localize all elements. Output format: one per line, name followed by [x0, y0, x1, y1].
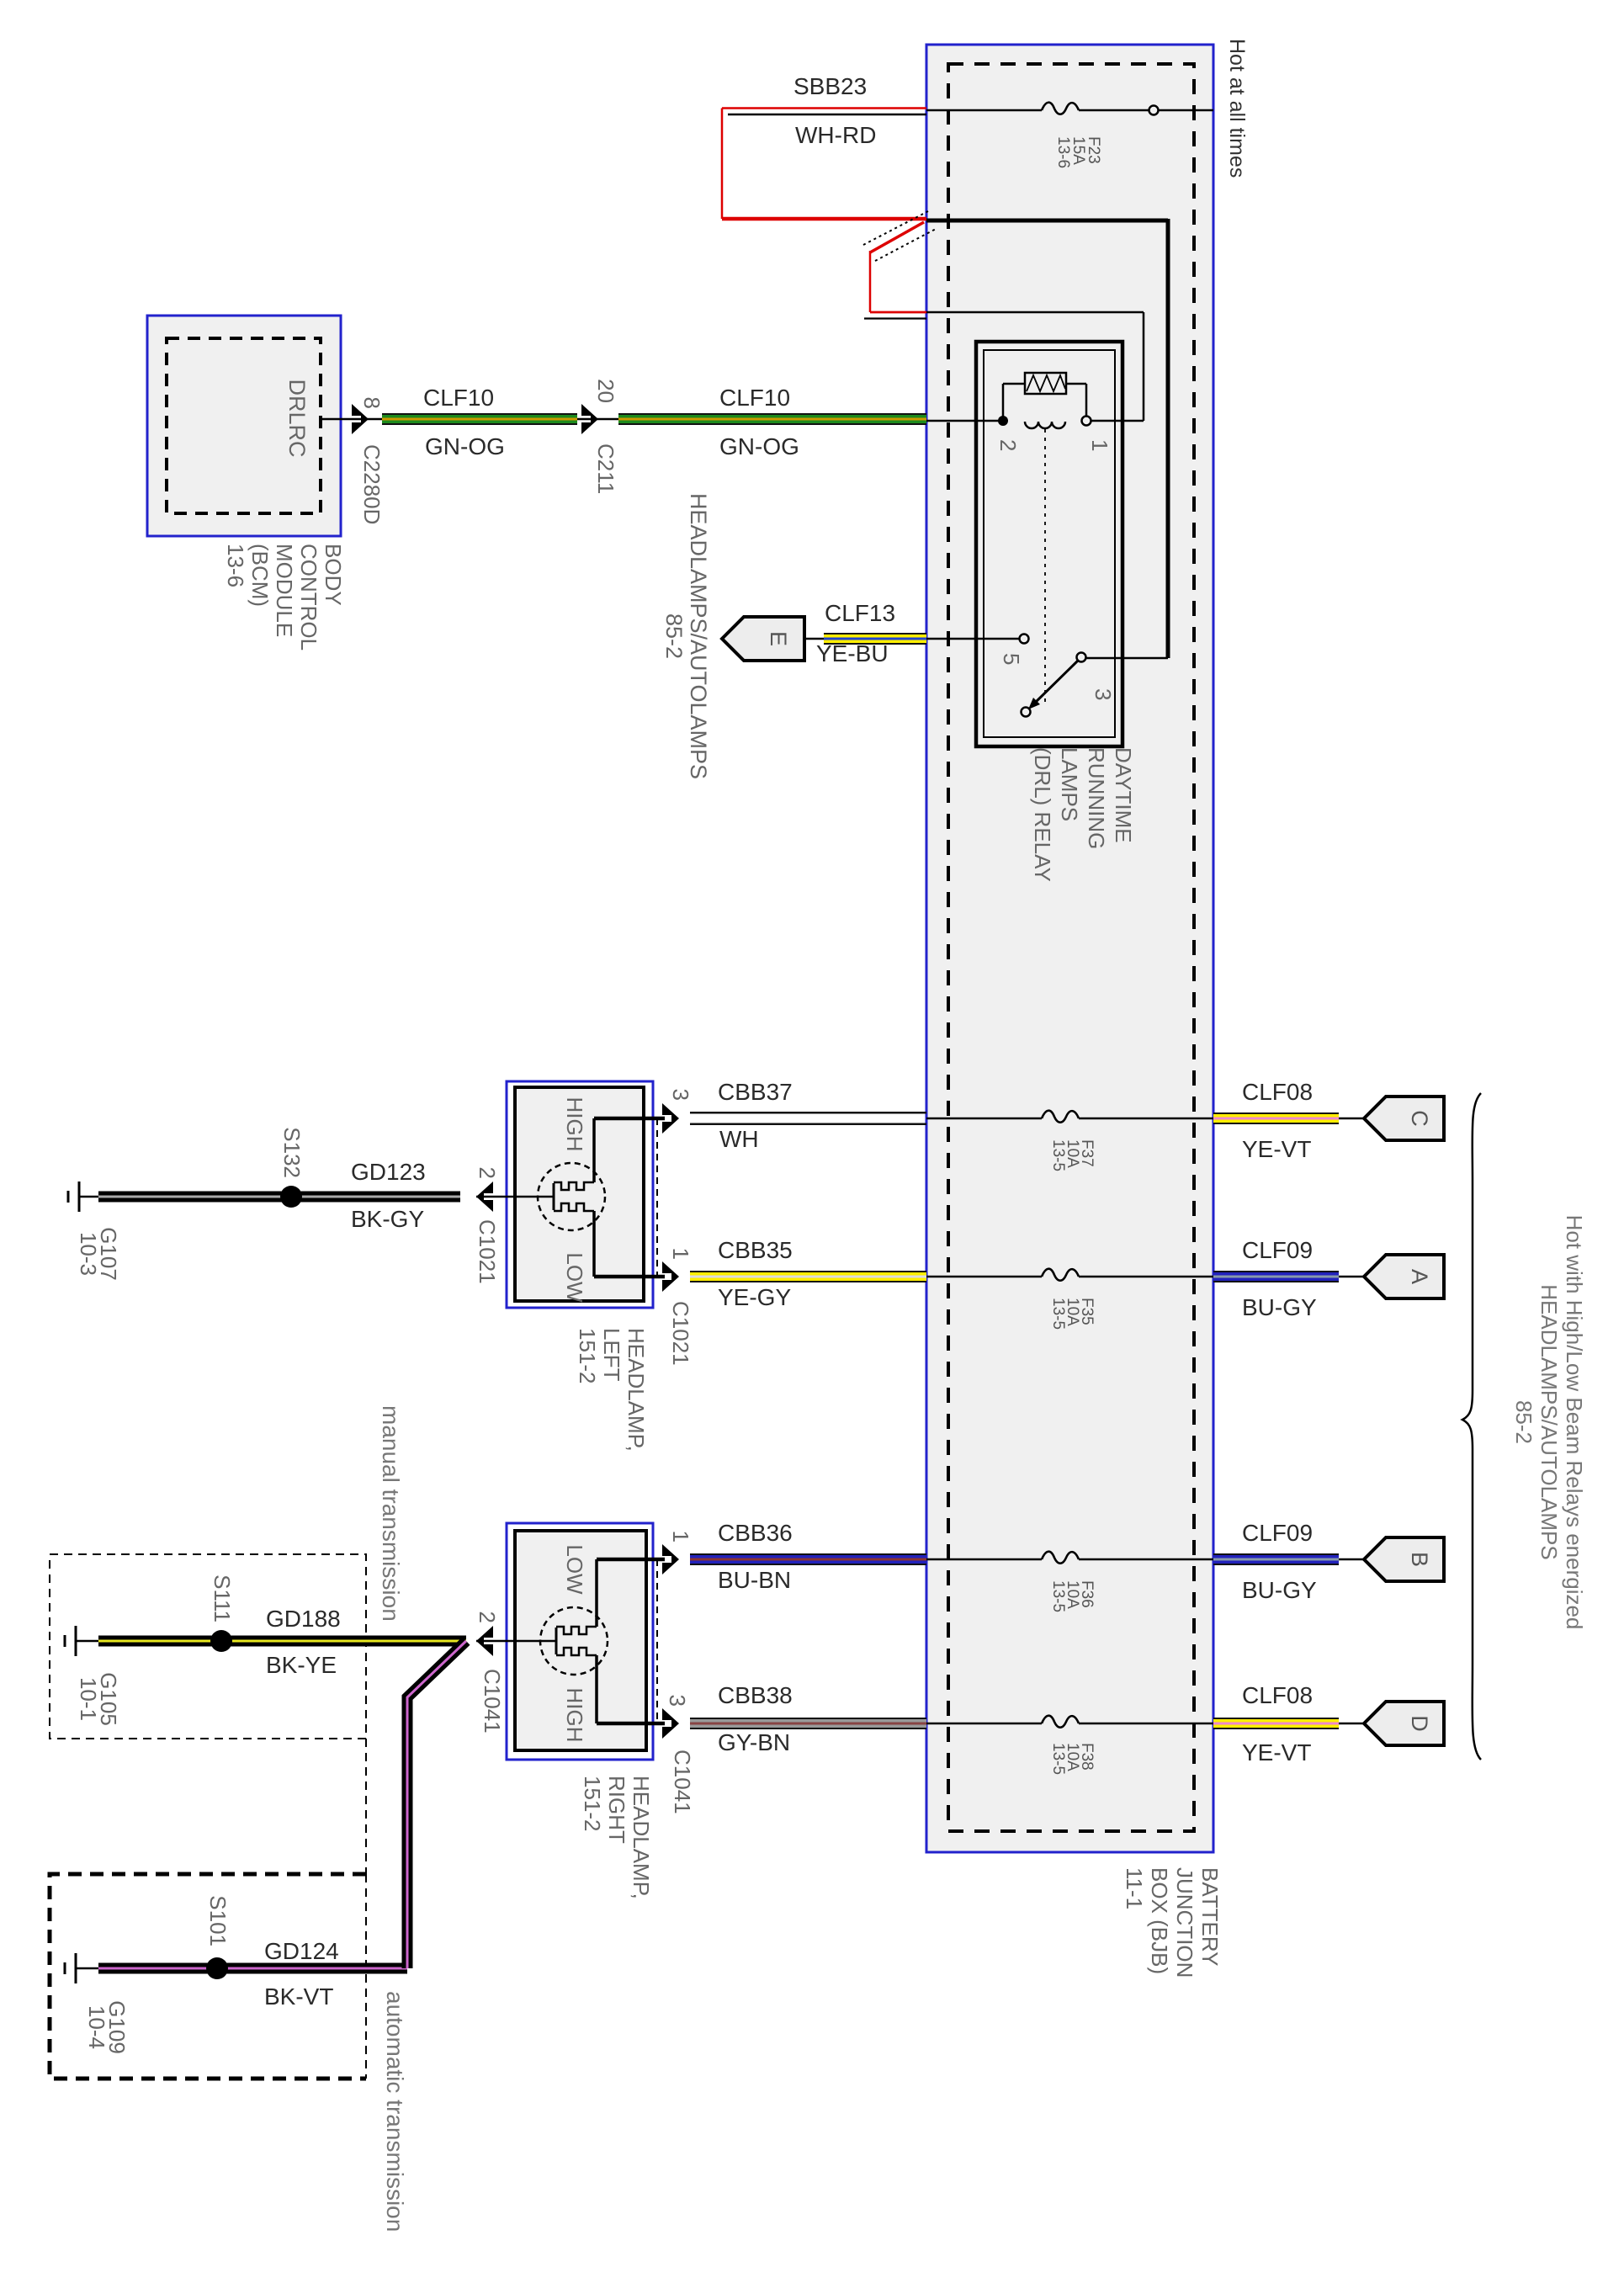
svg-text:CLF08: CLF08: [1242, 1079, 1313, 1105]
connector D tag: [1364, 1702, 1444, 1745]
left lamp pin 1 wire (low): [594, 1211, 665, 1277]
dashed link between boxes: [365, 1739, 367, 1874]
svg-text:C1041: C1041: [670, 1750, 695, 1814]
svg-text:GD188: GD188: [266, 1606, 341, 1632]
bulb (left headlamp): [538, 1163, 605, 1230]
svg-text:WH: WH: [719, 1126, 759, 1152]
label: Hot at all times: [1225, 39, 1249, 178]
svg-text:C1021: C1021: [475, 1219, 500, 1284]
label CLF13: [825, 600, 895, 626]
svg-text:BK-YE: BK-YE: [266, 1652, 337, 1678]
svg-text:1: 1: [668, 1248, 693, 1260]
body control module (DRLRC) box: [147, 316, 341, 536]
label LOW (right lamp): [562, 1544, 587, 1595]
label CLF08 (D): [1242, 1682, 1313, 1708]
label GD124: [264, 1938, 339, 1964]
label CLF08 (C): [1242, 1079, 1313, 1105]
label 3: [1091, 688, 1116, 700]
svg-text:automatic transmission: automatic transmission: [382, 1991, 408, 2232]
fuse F38: [926, 1716, 1213, 1728]
label automatic transmission: [382, 1991, 408, 2232]
svg-text:GD124: GD124: [264, 1938, 339, 1964]
svg-text:F3610A13-5: F3610A13-5: [1049, 1580, 1096, 1612]
wire CLF09 BU-GY (row B): [1213, 1553, 1364, 1565]
label GN-OG (1): [425, 433, 505, 459]
svg-text:D: D: [1407, 1715, 1432, 1732]
svg-text:G10910-4: G10910-4: [84, 2000, 130, 2054]
label C1021 (right side): [668, 1301, 693, 1366]
wire CBB37 WH: [690, 1112, 926, 1125]
svg-text:YE-VT: YE-VT: [1242, 1739, 1311, 1766]
relay armature dashed line: [1044, 429, 1046, 705]
svg-text:G10510-1: G10510-1: [76, 1672, 121, 1726]
wire CBB38 GY-BN: [690, 1718, 926, 1729]
right lamp pin 3 wire (high): [597, 1655, 665, 1723]
svg-text:CLF09: CLF09: [1242, 1520, 1313, 1546]
label C1021 (pin2 side): [475, 1219, 500, 1284]
svg-text:2: 2: [995, 439, 1021, 451]
svg-text:CBB37: CBB37: [718, 1079, 793, 1105]
connector C2280D pin 8 arrow: [352, 404, 369, 434]
wire SBB23 WH-RD: [722, 109, 926, 220]
label 2 (left lamp): [475, 1167, 500, 1179]
label BU-GY (A): [1242, 1294, 1317, 1320]
svg-text:GN-OG: GN-OG: [719, 433, 799, 459]
connector C1041 dashed boundary: [656, 1559, 658, 1723]
svg-text:8: 8: [359, 397, 385, 409]
label GY-BN: [718, 1729, 790, 1755]
relay pin 3: [1077, 653, 1086, 662]
relay switch arm: [1022, 661, 1079, 717]
label C1041 (pin2 side): [480, 1669, 505, 1734]
svg-text:WH-RD: WH-RD: [795, 122, 876, 148]
pin 3 arrow (C1021): [662, 1103, 679, 1134]
svg-text:C1021: C1021: [668, 1301, 693, 1366]
label 1 (right lamp): [668, 1531, 693, 1543]
label GN-OG (2): [719, 433, 799, 459]
label 5: [999, 653, 1024, 665]
label S101: [205, 1895, 231, 1946]
label C1041 (right side): [670, 1750, 695, 1814]
label YE-VT (C): [1242, 1136, 1311, 1162]
wire: battery feed to relay pin 3 (thick): [926, 219, 1168, 658]
DRL relay outline: [976, 342, 1122, 746]
label WH: [719, 1126, 759, 1152]
label LOW (left lamp): [562, 1252, 587, 1303]
wire CLF08 YE-VT (row C): [1213, 1112, 1364, 1124]
label HIGH (left lamp): [562, 1097, 587, 1152]
label manual transmission: [378, 1405, 404, 1622]
label YE-GY: [718, 1284, 791, 1310]
svg-text:C1041: C1041: [480, 1669, 505, 1734]
label F37 10A 13-5: [1049, 1139, 1096, 1171]
brace for headlamps/autolamps: [1462, 1093, 1481, 1760]
pin 3 arrow (C1041): [662, 1708, 679, 1739]
splice S132: [280, 1186, 302, 1208]
label CLF09 (A): [1242, 1237, 1313, 1263]
svg-text:C211: C211: [593, 443, 618, 494]
fuse F36: [926, 1552, 1213, 1564]
right lamp pin 1 wire (low): [597, 1559, 665, 1627]
label HEADLAMP, LEFT 151-2: [575, 1328, 649, 1452]
label BU-BN: [718, 1567, 791, 1593]
svg-text:GN-OG: GN-OG: [425, 433, 505, 459]
label F23 15A 13-6: [1054, 136, 1102, 168]
label 8: [359, 397, 385, 409]
connector B tag: [1364, 1537, 1444, 1581]
label BK-GY: [351, 1206, 424, 1232]
pin 1 arrow (C1021): [662, 1261, 679, 1292]
bulb (right headlamp): [540, 1607, 608, 1675]
svg-text:YE-VT: YE-VT: [1242, 1136, 1311, 1162]
svg-text:CLF10: CLF10: [423, 385, 494, 411]
svg-text:GY-BN: GY-BN: [718, 1729, 790, 1755]
label CBB37: [718, 1079, 793, 1105]
svg-text:A: A: [1407, 1269, 1432, 1284]
automatic transmission box: [50, 1874, 366, 2079]
label F35 10A 13-5: [1049, 1298, 1096, 1330]
relay pin 5: [1020, 635, 1029, 644]
svg-text:F2315A13-6: F2315A13-6: [1054, 136, 1102, 168]
label HEADLAMP, RIGHT 151-2: [580, 1776, 654, 1899]
manual transmission box: [50, 1554, 366, 1739]
label GD188: [266, 1606, 341, 1632]
label S111: [210, 1574, 235, 1622]
relay pin 2: [998, 416, 1008, 426]
svg-text:HIGH: HIGH: [562, 1097, 587, 1152]
label 2 (relay): [995, 439, 1021, 451]
svg-text:1: 1: [668, 1531, 693, 1543]
svg-text:SBB23: SBB23: [793, 73, 867, 99]
wire CLF09 BU-GY (row A): [1213, 1271, 1364, 1282]
label CLF10 (1): [423, 385, 494, 411]
fuse F23: [926, 103, 1213, 115]
pin 2 arrow (C1021): [476, 1181, 493, 1212]
svg-text:S132: S132: [279, 1127, 305, 1178]
svg-text:F3810A13-5: F3810A13-5: [1049, 1743, 1096, 1775]
left lamp pin 3 wire (high): [594, 1118, 665, 1182]
svg-text:CLF13: CLF13: [825, 600, 895, 626]
svg-text:S101: S101: [205, 1895, 231, 1946]
svg-text:CLF09: CLF09: [1242, 1237, 1313, 1263]
label CLF09 (B): [1242, 1520, 1313, 1546]
svg-text:YE-GY: YE-GY: [718, 1284, 791, 1310]
label S132: [279, 1127, 305, 1178]
svg-text:B: B: [1407, 1552, 1432, 1567]
svg-text:1: 1: [1087, 439, 1112, 451]
svg-text:2: 2: [475, 1167, 500, 1179]
splice S101: [206, 1957, 228, 1979]
svg-text:CBB35: CBB35: [718, 1237, 793, 1263]
fuse F35: [926, 1269, 1213, 1281]
label DRLRC: [284, 379, 310, 457]
wire CBB35 YE-GY: [690, 1271, 926, 1282]
connector A tag: [1364, 1255, 1444, 1298]
svg-text:BK-GY: BK-GY: [351, 1206, 424, 1232]
label 1 (relay): [1087, 439, 1112, 451]
wire GD188 BK-YE: [98, 1636, 466, 1647]
label F36 10A 13-5: [1049, 1580, 1096, 1612]
svg-text:BK-VT: BK-VT: [264, 1983, 333, 2010]
svg-text:BU-GY: BU-GY: [1242, 1294, 1317, 1320]
fuse F37: [926, 1111, 1213, 1123]
svg-text:C2280D: C2280D: [359, 444, 385, 524]
headlamp left box: [507, 1081, 653, 1308]
wire GD123 BK-GY: [98, 1192, 460, 1203]
label F38 10A 13-5: [1049, 1743, 1096, 1775]
svg-text:manual transmission: manual transmission: [378, 1405, 404, 1622]
svg-text:F3510A13-5: F3510A13-5: [1049, 1298, 1096, 1330]
label CLF10 (2): [719, 385, 790, 411]
svg-text:CBB36: CBB36: [718, 1520, 793, 1546]
svg-text:HIGH: HIGH: [562, 1688, 587, 1743]
label C2280D: [359, 444, 385, 524]
label 20: [593, 379, 618, 403]
label GD123: [351, 1159, 426, 1185]
label 3 (right lamp): [665, 1695, 690, 1707]
connector E tag: [722, 617, 804, 661]
wire RD branch to relay pin 1: [864, 251, 1144, 421]
svg-text:3: 3: [1091, 688, 1116, 700]
label BK-YE: [266, 1652, 337, 1678]
svg-text:LOW: LOW: [562, 1252, 587, 1303]
label DAYTIME RUNNING LAMPS (DRL) RELAY: [1030, 747, 1136, 882]
svg-text:5: 5: [999, 653, 1024, 665]
wire CLF13 YE-BU: [804, 633, 1020, 645]
label YE-VT (D): [1242, 1739, 1311, 1766]
label 3 (left lamp): [668, 1089, 693, 1101]
label CBB38: [718, 1682, 793, 1708]
pin 1 arrow (C1041): [662, 1544, 679, 1574]
label CBB36: [718, 1520, 793, 1546]
BJB inner dashed border: [948, 64, 1194, 1831]
label CBB35: [718, 1237, 793, 1263]
left lamp pin 2 wire: [476, 1196, 539, 1198]
svg-text:CLF10: CLF10: [719, 385, 790, 411]
label BODY CONTROL MODULE (BCM) 13-6: [223, 544, 346, 650]
label SBB23: [793, 73, 867, 99]
svg-text:DRLRC: DRLRC: [284, 379, 310, 457]
label BK-VT: [264, 1983, 333, 2010]
svg-text:G10710-3: G10710-3: [76, 1227, 121, 1281]
label BATTERY JUNCTION BOX (BJB) 11-1: [1122, 1867, 1223, 1978]
svg-text:GD123: GD123: [351, 1159, 426, 1185]
svg-text:Hot at all times: Hot at all times: [1225, 39, 1249, 178]
wire CBB36 BU-BN: [690, 1553, 926, 1565]
svg-text:20: 20: [593, 379, 618, 403]
wire CLF10 GN-OG segment 1: [382, 413, 577, 425]
label C211: [593, 443, 618, 494]
label YE-BU: [816, 640, 889, 666]
svg-text:2: 2: [475, 1612, 500, 1623]
label G107 10-3: [76, 1227, 121, 1281]
label HEADLAMPS/AUTOLAMPS 85-2: [661, 493, 711, 779]
wire stub from DRLRC pin 8: [321, 418, 382, 421]
svg-text:S111: S111: [210, 1574, 235, 1622]
label 2 (right lamp): [475, 1612, 500, 1623]
svg-text:LOW: LOW: [562, 1544, 587, 1595]
label 1 (left lamp): [668, 1248, 693, 1260]
wire CLF10 GN-OG segment 2: [618, 413, 926, 425]
right lamp pin 2 wire: [476, 1640, 541, 1643]
svg-text:BU-GY: BU-GY: [1242, 1577, 1317, 1603]
pin 2 arrow (C1041): [476, 1626, 493, 1656]
svg-text:YE-BU: YE-BU: [816, 640, 889, 666]
svg-text:F3710A13-5: F3710A13-5: [1049, 1139, 1096, 1171]
svg-text:C: C: [1407, 1110, 1432, 1127]
wire CLF10 inside BJB to relay pin 2: [926, 420, 999, 422]
svg-text:CLF08: CLF08: [1242, 1682, 1313, 1708]
svg-text:3: 3: [665, 1695, 690, 1707]
wire GD124 BK-VT: [98, 1963, 407, 1974]
relay coil: [1025, 422, 1065, 428]
label G109 10-4: [84, 2000, 130, 2054]
label G105 10-1: [76, 1672, 121, 1726]
headlamp right box: [507, 1523, 653, 1760]
relay resistor: [1025, 373, 1066, 394]
svg-text:BU-BN: BU-BN: [718, 1567, 791, 1593]
relay resistor leads: [1003, 384, 1086, 421]
wire GD124 riser to C1041 pin 2: [407, 1641, 466, 1968]
in-line connector C211 pin 20: [577, 404, 618, 434]
ground G105: [65, 1626, 99, 1656]
label Hot with High/Low Beam Relays energized HEADLAMPS/AUTOLAMPS 85-2: [1511, 1215, 1587, 1630]
connector C1021 dashed boundary: [656, 1118, 658, 1277]
svg-text:3: 3: [668, 1089, 693, 1101]
svg-text:E: E: [766, 631, 791, 646]
label WH-RD: [795, 122, 876, 148]
crossover diagonal to relay coil feed: [863, 211, 937, 261]
relay pin 1: [1082, 417, 1091, 426]
ground G109: [65, 1953, 99, 1983]
label BU-GY (B): [1242, 1577, 1317, 1603]
ground G107: [68, 1181, 99, 1212]
battery junction box (BJB): [926, 45, 1213, 1852]
wire CLF08 YE-VT (row D): [1213, 1718, 1364, 1729]
connector C tag: [1364, 1097, 1444, 1140]
splice S111: [210, 1630, 232, 1652]
svg-text:CBB38: CBB38: [718, 1682, 793, 1708]
label HIGH (right lamp): [562, 1688, 587, 1743]
